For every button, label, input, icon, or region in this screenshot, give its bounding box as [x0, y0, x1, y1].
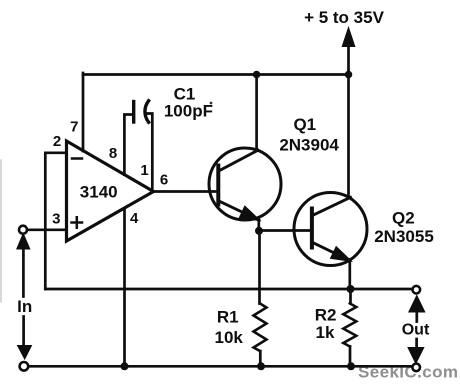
svg-text:100pF: 100pF [164, 102, 213, 121]
svg-text:R1: R1 [217, 308, 239, 327]
capacitor C1 left plate [132, 102, 135, 123]
svg-text:7: 7 [70, 119, 78, 136]
wire bottom ground rail [28, 365, 413, 368]
wire pin 3 input [27, 228, 67, 231]
node junction dot Q2 emitter / output line [347, 285, 355, 293]
wire pin 7 to rail [82, 73, 85, 151]
svg-text:3140: 3140 [80, 183, 118, 202]
transistor Q1 2N3904 [209, 148, 281, 220]
power arrow [347, 45, 350, 75]
node junction dot Q1 emitter / Q2 base [255, 227, 263, 235]
terminal In bottom [20, 362, 29, 371]
node junction dot rail/Q2 collector [345, 71, 353, 79]
svg-text:1: 1 [140, 162, 148, 179]
scan speck [210, 102, 213, 105]
terminal Out bottom [412, 364, 420, 372]
resistor R2 1k [349, 289, 352, 303]
svg-text:+ 5 to 35V: + 5 to 35V [304, 8, 385, 27]
node junction dot pin4/ground [121, 362, 129, 370]
svg-text:2: 2 [53, 133, 61, 150]
terminal Out top [413, 286, 421, 294]
minus sign inverting input [72, 157, 82, 160]
wire Q1 emitter to Q2 base [259, 229, 312, 232]
capacitor C1 right curved plate [145, 101, 149, 122]
svg-text:6: 6 [160, 172, 168, 189]
wire pin 8 to capacitor [124, 115, 133, 175]
svg-text:In: In [17, 297, 32, 316]
wire rail to Q1 collector [255, 75, 258, 151]
wire rail to Q2 collector [347, 75, 350, 198]
svg-text:Q2: Q2 [392, 209, 415, 228]
svg-text:Q1: Q1 [293, 115, 316, 134]
node junction dot R1/ground [257, 362, 265, 370]
wire feedback/output horizontal [45, 288, 412, 291]
svg-text:Out: Out [402, 322, 430, 339]
wire pin 4 to ground rail [123, 209, 126, 367]
terminal In top [19, 226, 27, 234]
scan border artifact left edge [0, 160, 2, 302]
wire pin 2 feedback [45, 153, 66, 289]
transistor Q2 2N3055 [294, 193, 367, 266]
svg-text:2N3904: 2N3904 [279, 135, 339, 154]
resistor R1 10k [258, 231, 261, 304]
svg-text:3: 3 [52, 211, 60, 228]
svg-text:10k: 10k [215, 328, 244, 347]
node junction dot R2/ground [347, 362, 355, 370]
svg-text:8: 8 [109, 145, 117, 162]
svg-text:2N3055: 2N3055 [374, 227, 434, 246]
node junction dot rail/Q1 collector [253, 71, 261, 79]
wire capacitor to pin 1 [148, 114, 153, 191]
wire top rail [83, 73, 349, 76]
svg-text:1k: 1k [316, 323, 335, 342]
svg-text:R2: R2 [315, 305, 337, 324]
plus sign non-inverting input [72, 217, 83, 228]
svg-text:4: 4 [130, 210, 139, 227]
wire op-amp output pin 6 [154, 190, 219, 193]
op-amp U1 triangle 3140 [67, 141, 154, 241]
